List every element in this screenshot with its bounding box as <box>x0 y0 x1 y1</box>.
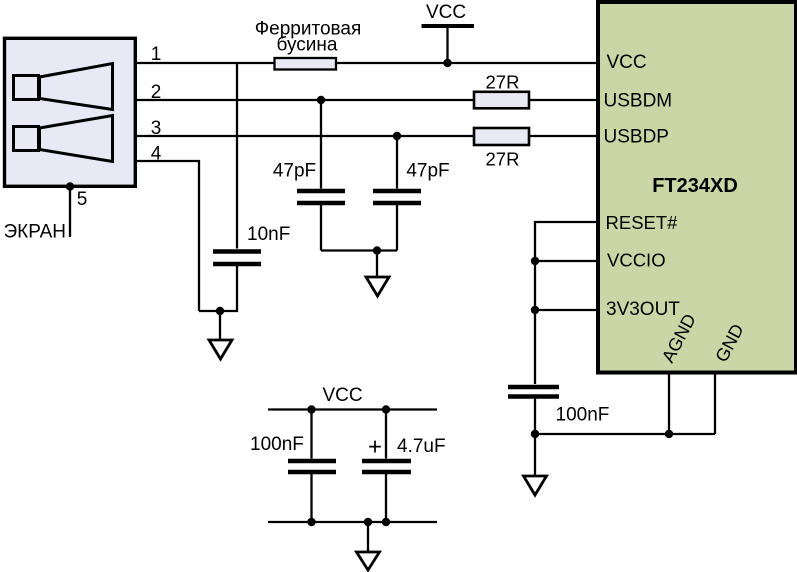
VCC rail bottom <box>268 521 437 523</box>
junction rail bottom ground <box>364 518 372 526</box>
svg-text:VCCIO: VCCIO <box>607 250 666 271</box>
wire 3V3OUT <box>535 309 597 311</box>
svg-text:USBDP: USBDP <box>604 127 669 148</box>
USB connector contact top <box>14 64 113 110</box>
junction ground bus left <box>531 430 539 438</box>
wire to ground 2 <box>376 251 378 278</box>
AGND pin wire <box>668 372 670 434</box>
junction VCC on line 1 <box>443 59 451 67</box>
svg-text:бусина: бусина <box>277 35 338 56</box>
capacitor C6 wire bottom <box>385 474 387 522</box>
capacitor C5 plates <box>288 459 336 464</box>
wire pin3 to resistor R2 <box>136 135 474 137</box>
svg-text:RESET#: RESET# <box>606 212 679 233</box>
capacitor C5 wire bottom <box>310 474 312 522</box>
wire VCCIO <box>535 260 597 262</box>
junction rail C5 <box>307 405 315 413</box>
svg-text:100nF: 100nF <box>250 434 304 455</box>
svg-text:5: 5 <box>77 189 88 210</box>
VCC rail top <box>268 408 437 410</box>
capacitor C1 10nF wire from line1 <box>236 63 238 249</box>
junction AGND <box>665 430 673 438</box>
wire pin2 to resistor R1 <box>136 99 474 101</box>
svg-text:3V3OUT: 3V3OUT <box>606 299 680 320</box>
ferrite bead FB1 <box>275 58 337 70</box>
junction caps ground <box>373 246 381 254</box>
capacitor C3 47pF wire <box>396 136 398 189</box>
svg-text:VCC: VCC <box>426 2 466 23</box>
svg-text:27R: 27R <box>486 149 520 170</box>
svg-text:ЭКРАН: ЭКРАН <box>4 222 67 243</box>
capacitor C6 4.7uF wire top <box>385 410 387 459</box>
wire pin1 to ferrite bead <box>136 62 274 64</box>
wire pin5 shield <box>69 187 71 238</box>
resistor R2 27R <box>474 128 529 145</box>
ground symbol 2 <box>366 277 389 296</box>
VCC power symbol top <box>422 2 475 63</box>
wire ferrite bead to chip VCC <box>336 62 597 64</box>
svg-text:FT234XD: FT234XD <box>652 175 738 197</box>
svg-text:27R: 27R <box>486 72 520 93</box>
junction C2 on line2 <box>317 96 325 104</box>
IC U1 FT234XD body <box>598 2 796 373</box>
capacitor C6 plates <box>362 459 411 464</box>
wire to ground 4 <box>367 522 369 552</box>
junction VCCIO <box>531 257 539 265</box>
resistor R1 27R <box>474 92 529 109</box>
junction 3V3OUT <box>531 306 539 314</box>
junction C3 on line3 <box>393 132 401 140</box>
wire C2 bottom <box>320 205 322 251</box>
svg-text:47pF: 47pF <box>273 161 316 182</box>
svg-text:VCC: VCC <box>322 385 362 406</box>
svg-text:10nF: 10nF <box>247 224 290 245</box>
GND pin wire <box>714 372 716 434</box>
wire RESET# <box>535 222 597 384</box>
svg-text:VCC: VCC <box>607 52 647 73</box>
ground symbol 4 <box>357 552 380 570</box>
USB connector contact bottom <box>14 116 113 162</box>
junction rail bottom C6 <box>382 518 390 526</box>
capacitor C1 10nF plates <box>213 249 261 254</box>
wire C2 C3 common <box>321 249 397 251</box>
svg-text:4.7uF: 4.7uF <box>397 436 446 457</box>
capacitor C3 47pF plates <box>373 189 421 194</box>
capacitor C2 47pF plates <box>297 189 345 194</box>
svg-text:+: + <box>368 434 382 461</box>
junction C1 ground <box>216 307 224 315</box>
capacitor C5 100nF wire top <box>310 410 312 459</box>
wire R2 to chip USBDP <box>529 135 597 137</box>
ground symbol 1 <box>209 340 232 359</box>
wire to ground 3 <box>534 434 536 476</box>
junction rail C6 <box>382 405 390 413</box>
svg-text:100nF: 100nF <box>556 405 610 426</box>
capacitor C4 100nF plates <box>508 385 559 390</box>
svg-text:USBDM: USBDM <box>604 91 673 112</box>
wire R1 to chip USBDM <box>529 99 597 101</box>
wire C3 bottom <box>396 205 398 251</box>
wire ground bus right <box>535 433 715 435</box>
junction pin5 <box>66 182 74 190</box>
junction rail bottom C5 <box>307 518 315 526</box>
capacitor C2 47pF wire <box>320 100 322 189</box>
wire pin4 down <box>136 161 199 311</box>
wire C1 bottom <box>199 266 237 311</box>
wire C4 bottom <box>534 399 536 435</box>
wire to ground 1 <box>219 311 221 340</box>
svg-text:47pF: 47pF <box>406 161 449 182</box>
USB connector J1 body <box>5 38 136 186</box>
ground symbol 3 <box>524 476 547 495</box>
